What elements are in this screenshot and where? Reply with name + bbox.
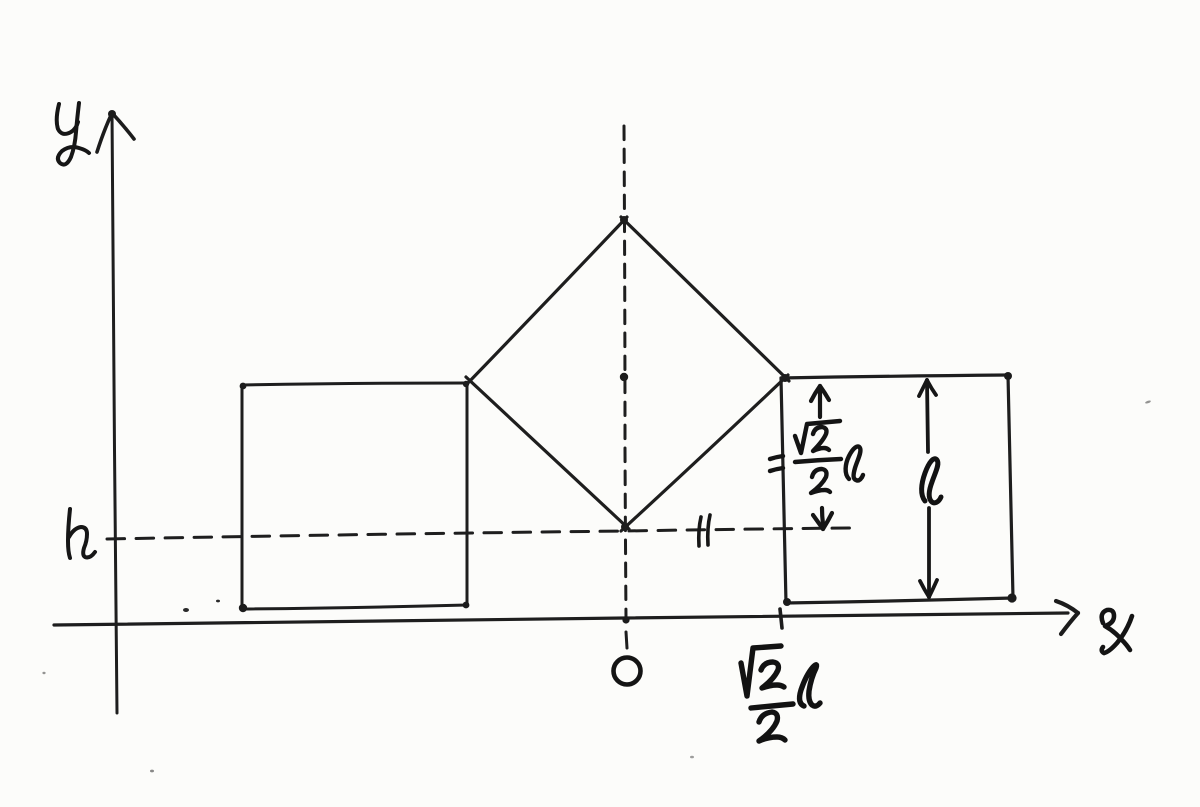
radical sign (795, 421, 840, 453)
hash tick on h-line (699, 515, 710, 546)
l (800, 665, 820, 706)
diamond (rotated square) (466, 217, 789, 531)
fraction bar (751, 704, 793, 708)
stray ink specks (42, 400, 1151, 773)
right square corner dots (783, 372, 1017, 606)
label O (origin) (614, 658, 641, 685)
diamond vertex dots (620, 216, 789, 531)
measurement arrow for l (double headed) (919, 380, 937, 597)
x-axis (54, 613, 1068, 625)
label x (1102, 610, 1132, 653)
label y (57, 103, 89, 165)
annotation = sqrt(2)/2 l (770, 421, 863, 493)
diamond center dot (620, 373, 628, 381)
y-axis (112, 112, 117, 713)
2 under radical (813, 427, 829, 451)
left square corner dots (239, 381, 470, 612)
label l (inside right square) (922, 459, 941, 503)
2 under radical (761, 662, 784, 688)
dash below axis above O (626, 632, 627, 648)
lower 2 (811, 469, 830, 493)
tick mark on x-axis at sqrt2/2 l (780, 609, 782, 628)
vertical dashed symmetry line (624, 126, 626, 618)
lower 2 (759, 712, 785, 741)
small down arrow (bottom of sqrt2/2 l distance) (813, 508, 832, 529)
fraction bar (795, 459, 841, 462)
radical sign (741, 646, 781, 696)
left square (242, 383, 467, 609)
y-axis arrowhead (97, 110, 134, 152)
equals sign (770, 456, 783, 459)
right square (781, 375, 1013, 603)
dot at axis crossing (622, 616, 629, 623)
l after fraction (846, 446, 863, 480)
label sqrt(2)/2 l under axis (741, 646, 820, 741)
horizontal dashed h-line (107, 528, 852, 539)
label h (68, 509, 95, 558)
x-axis arrowhead (1056, 601, 1078, 634)
small up arrow (top of sqrt2/2 l distance) (811, 386, 829, 417)
